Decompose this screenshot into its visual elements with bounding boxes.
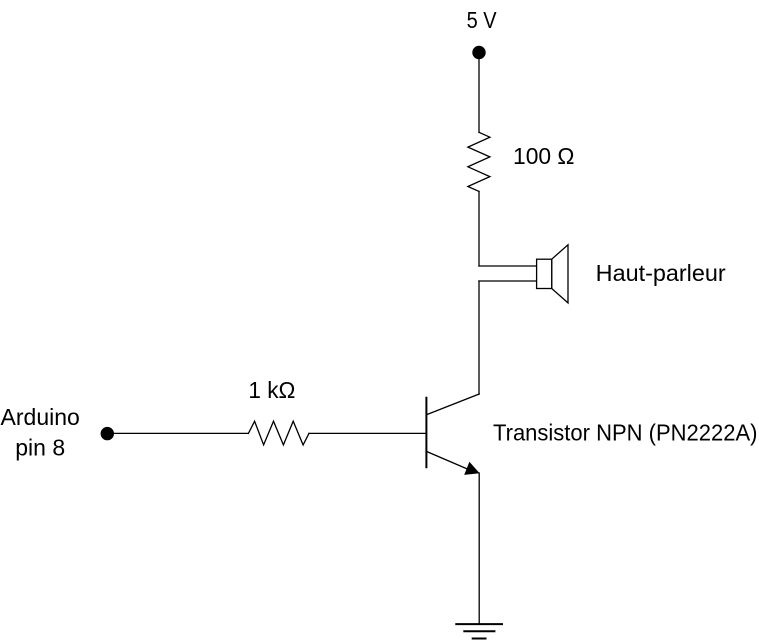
svg-text:Haut-parleur: Haut-parleur [596, 260, 726, 286]
svg-text:Arduino: Arduino [1, 404, 80, 430]
svg-text:Transistor NPN (PN2222A): Transistor NPN (PN2222A) [493, 420, 758, 446]
svg-text:1 kΩ: 1 kΩ [248, 377, 295, 403]
svg-text:pin 8: pin 8 [15, 434, 65, 460]
svg-text:5 V: 5 V [467, 7, 498, 33]
svg-text:100 Ω: 100 Ω [513, 143, 575, 169]
